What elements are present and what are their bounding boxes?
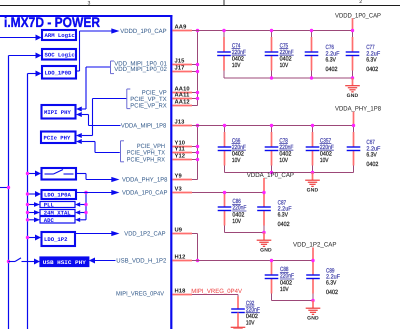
svg-text:MIPI_VREG_0P4V: MIPI_VREG_0P4V <box>191 288 243 295</box>
svg-text:SOC Logic: SOC Logic <box>45 51 76 58</box>
svg-text:AA9: AA9 <box>175 24 188 31</box>
svg-text:0402: 0402 <box>366 66 379 73</box>
svg-text:6.3V: 6.3V <box>326 57 337 64</box>
svg-text:0402: 0402 <box>366 161 379 168</box>
svg-text:Y9: Y9 <box>175 173 183 180</box>
svg-text:J15: J15 <box>175 59 186 65</box>
svg-text:VDDA_1P0_CAP: VDDA_1P0_CAP <box>247 172 294 179</box>
svg-text:GND: GND <box>307 188 319 194</box>
svg-text:GND: GND <box>347 93 359 99</box>
svg-text:PCIE_VP_RX: PCIE_VP_RX <box>130 102 166 109</box>
svg-text:VDDA_PHY_1P8: VDDA_PHY_1P8 <box>335 106 381 113</box>
svg-text:VDDA_MIPI_1P8: VDDA_MIPI_1P8 <box>121 123 167 130</box>
svg-text:0402: 0402 <box>326 289 339 296</box>
svg-text:6.3V: 6.3V <box>278 212 289 219</box>
svg-text:3: 3 <box>88 0 91 6</box>
svg-text:ARM Logic: ARM Logic <box>45 32 76 39</box>
svg-text:10V: 10V <box>246 320 255 327</box>
svg-text:10V: 10V <box>232 62 241 69</box>
svg-text:AA12: AA12 <box>175 99 190 106</box>
svg-text:6.3V: 6.3V <box>366 152 377 159</box>
svg-text:PCIE_VPH_RX: PCIE_VPH_RX <box>127 156 165 163</box>
svg-text:ADC: ADC <box>44 217 55 224</box>
svg-text:6.3V: 6.3V <box>366 57 377 64</box>
svg-text:Y10: Y10 <box>175 140 186 147</box>
svg-text:VDD_1P2_CAP: VDD_1P2_CAP <box>293 241 337 248</box>
svg-text:24M XTAL: 24M XTAL <box>44 210 71 217</box>
svg-text:V3: V3 <box>175 186 183 193</box>
svg-text:H12: H12 <box>175 254 186 261</box>
svg-text:VDD_MIPI_1P0_02: VDD_MIPI_1P0_02 <box>114 66 167 73</box>
svg-text:VDDA_PHY_1P8: VDDA_PHY_1P8 <box>122 177 168 184</box>
svg-text:VDD_1P2_CAP: VDD_1P2_CAP <box>124 231 165 238</box>
svg-text:10V: 10V <box>232 218 241 225</box>
svg-text:0402: 0402 <box>326 66 339 73</box>
svg-text:Y12: Y12 <box>175 153 186 160</box>
svg-text:10V: 10V <box>232 157 241 164</box>
svg-text:MIPI_VREG_0P4V: MIPI_VREG_0P4V <box>116 290 165 297</box>
svg-text:GND: GND <box>260 248 272 254</box>
svg-text:AA11: AA11 <box>175 93 191 99</box>
svg-text:MIPI PHY: MIPI PHY <box>44 109 71 116</box>
svg-text:VDDD_1P0_CAP: VDDD_1P0_CAP <box>120 28 166 35</box>
svg-text:USB_VDD_H_1P2: USB_VDD_H_1P2 <box>116 258 167 265</box>
svg-text:0402: 0402 <box>278 221 291 228</box>
svg-text:i.MX7D - POWER: i.MX7D - POWER <box>4 14 100 30</box>
svg-text:PLL: PLL <box>44 202 55 209</box>
svg-text:10V: 10V <box>320 157 329 164</box>
svg-text:6.3V: 6.3V <box>326 280 337 287</box>
svg-text:VDDA_1P0_CAP: VDDA_1P0_CAP <box>122 190 167 197</box>
svg-text:10V: 10V <box>280 286 289 293</box>
svg-text:LDO_1P2: LDO_1P2 <box>44 236 68 243</box>
svg-text:GND: GND <box>307 316 319 322</box>
svg-text:AA10: AA10 <box>175 86 190 93</box>
svg-text:10V: 10V <box>279 157 288 164</box>
svg-text:J13: J13 <box>175 119 186 126</box>
svg-text:H18: H18 <box>175 288 187 295</box>
svg-text:10V: 10V <box>280 62 289 69</box>
svg-text:PCIe PHY: PCIe PHY <box>44 134 71 141</box>
svg-text:USB HSIC PHY: USB HSIC PHY <box>43 260 87 266</box>
svg-text:J17: J17 <box>175 66 185 72</box>
svg-text:2: 2 <box>359 0 362 5</box>
svg-text:LDO_1P0D: LDO_1P0D <box>45 69 72 76</box>
svg-text:VDDD_1P0_CAP: VDDD_1P0_CAP <box>335 12 381 19</box>
svg-text:Y11: Y11 <box>175 147 186 153</box>
svg-text:LDO_1P0A: LDO_1P0A <box>44 192 71 199</box>
svg-text:U9: U9 <box>175 227 183 234</box>
